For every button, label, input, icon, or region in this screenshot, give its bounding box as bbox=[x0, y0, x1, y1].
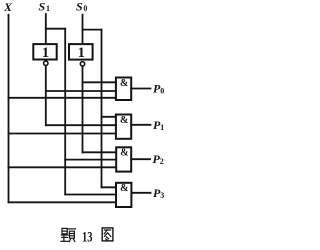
and-gate G2 box bbox=[116, 115, 131, 139]
wire S1 vertical rail bbox=[64, 29, 66, 195]
svg-text:1: 1 bbox=[78, 45, 85, 61]
wire X branch to gate3 bbox=[9, 166, 116, 168]
svg-text:2: 2 bbox=[160, 157, 164, 166]
inverter U2 output bubble bbox=[80, 62, 84, 66]
wire S0 vertical rail bbox=[101, 30, 103, 188]
and-gate G4 box bbox=[116, 183, 131, 207]
svg-text:&: & bbox=[120, 78, 128, 89]
svg-text:1: 1 bbox=[42, 45, 49, 61]
wire S1 input to inverter U1 bbox=[45, 14, 47, 43]
wire G4 output bbox=[131, 192, 150, 194]
wire S0 to gate4 input bbox=[102, 186, 117, 188]
wire S1' to gate1 input bbox=[46, 90, 116, 92]
wire S1' vertical rail bbox=[45, 66, 47, 126]
svg-text:3: 3 bbox=[160, 191, 164, 200]
wire S0' to gate1 input bbox=[83, 81, 116, 83]
and-gate G3 box bbox=[116, 147, 131, 171]
caption: 题 13 图 bbox=[61, 228, 113, 246]
wire S1 to gate3 input bbox=[65, 159, 116, 161]
wire S1 branch horizontal bbox=[46, 28, 65, 30]
svg-text:&: & bbox=[120, 183, 128, 194]
inverter U2 box bbox=[69, 44, 93, 60]
wire X branch to gate4 bbox=[9, 201, 116, 203]
inverter U1 box bbox=[33, 44, 56, 59]
svg-text:S: S bbox=[76, 0, 83, 14]
wire S0' to gate3 input bbox=[83, 151, 117, 153]
wire X branch to gate1 bbox=[9, 97, 116, 99]
svg-text:0: 0 bbox=[83, 4, 87, 13]
wire G1 output bbox=[131, 88, 150, 90]
wire G2 output bbox=[131, 124, 150, 126]
caption glyph 题 bbox=[61, 228, 76, 241]
wire X branch to gate2 bbox=[9, 133, 116, 135]
svg-text:13: 13 bbox=[82, 230, 93, 246]
wire S1' to gate2 input bbox=[46, 124, 116, 126]
svg-text:S: S bbox=[39, 0, 46, 14]
wire X vertical rail bbox=[8, 15, 10, 203]
wire G3 output bbox=[131, 158, 150, 160]
wire S0 to gate2 input bbox=[102, 116, 116, 118]
svg-text:1: 1 bbox=[46, 4, 50, 13]
caption glyph 图 bbox=[102, 228, 113, 241]
svg-text:&: & bbox=[120, 115, 128, 126]
svg-text:0: 0 bbox=[160, 87, 164, 96]
svg-text:&: & bbox=[120, 148, 128, 159]
wire S0 input to inverter U2 bbox=[82, 15, 84, 44]
wire S0' vertical rail bbox=[82, 66, 84, 152]
and-gate G1 box bbox=[116, 78, 131, 101]
wire S0 branch horizontal bbox=[83, 29, 102, 31]
inverter U1 output bubble bbox=[44, 61, 48, 65]
svg-text:1: 1 bbox=[160, 123, 164, 132]
wire S1 to gate4 input bbox=[65, 194, 116, 196]
svg-text:X: X bbox=[3, 0, 13, 14]
